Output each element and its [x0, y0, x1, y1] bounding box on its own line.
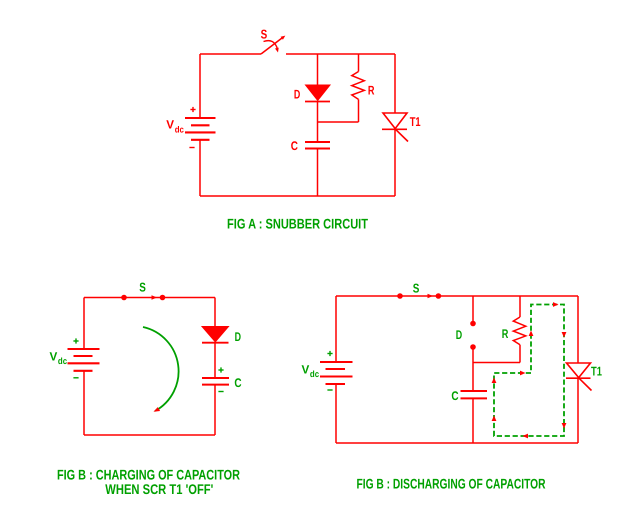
charging current arc arrowhead (red) [154, 407, 161, 412]
wire junction D-R (discharging) [473, 362, 520, 364]
svg-text:C: C [291, 139, 298, 153]
discharge loop arrowhead down at T1-side upper [562, 332, 567, 338]
svg-text:C: C [451, 389, 458, 403]
svg-text:R: R [502, 327, 509, 341]
thyristor T1 (discharging) triangle [567, 363, 591, 378]
svg-text:S: S [139, 280, 146, 294]
diode D (charging) filled triangle [202, 327, 229, 342]
svg-text:S: S [261, 27, 268, 41]
wire left side (Vdc top lead) [199, 54, 201, 118]
capacitor C (charging) plates [202, 378, 229, 385]
wire bottom rail (discharging) [336, 442, 578, 444]
diode D open terminals dot lower (discharging) [470, 344, 476, 350]
wire top-left rail [200, 53, 261, 55]
diode D cathode bar [305, 101, 330, 103]
svg-text:D: D [456, 328, 462, 342]
wire R branch bottom lead [358, 99, 360, 122]
discharge loop arrowhead down at T1-side lower [562, 423, 567, 429]
wire top rail (discharging) [336, 295, 578, 297]
wire left side (Vdc bottom lead) [199, 140, 201, 196]
thyristor T1 cathode bar [382, 128, 407, 130]
label - (discharging battery) [327, 389, 332, 391]
svg-text:D: D [235, 330, 241, 344]
switch S blade [261, 38, 282, 54]
wire bottom rail [200, 195, 395, 197]
svg-text:WHEN SCR T1 'OFF': WHEN SCR T1 'OFF' [105, 481, 213, 497]
wire right side top (to T1) [577, 296, 579, 363]
wire left side top (discharging battery) [335, 296, 337, 362]
svg-text:T1: T1 [591, 364, 602, 378]
capacitor C (discharging) plates [461, 391, 488, 398]
label + (charging battery) [73, 338, 78, 343]
discharge loop arrowhead up at left-upper [492, 378, 497, 384]
discharge loop arrowhead up at R-side vertical [529, 331, 534, 337]
wire right side top (to diode) [214, 298, 216, 327]
label + (charging capacitor) [218, 367, 223, 372]
resistor R (discharging) zigzag [513, 317, 526, 345]
wire left side top (charging battery) [83, 298, 85, 350]
switch S motion arc arrowhead [275, 48, 279, 53]
wire D branch upper (discharging) [472, 296, 474, 321]
wire T1 branch top [394, 54, 396, 113]
switch S node dot 1 (charging) [121, 295, 127, 301]
wire top-right rail [286, 53, 395, 55]
switch S current arrowhead (charging) [152, 295, 158, 299]
svg-text:D: D [294, 88, 300, 102]
label - (charging battery) [73, 377, 78, 379]
diode D (FIG A) filled triangle [306, 85, 331, 101]
wire T1 branch bottom [394, 129, 396, 196]
switch S motion arc [264, 41, 278, 49]
thyristor T1 gate (discharging) [579, 378, 592, 390]
wire junction to capacitor (discharging) [472, 363, 474, 392]
label - (FIG A battery) [189, 147, 194, 149]
wire diode to capacitor [214, 343, 216, 379]
svg-text:V: V [302, 363, 310, 377]
svg-text:V: V [50, 350, 58, 364]
diode D open terminals dot upper (discharging) [470, 321, 476, 327]
wire C to bottom rail [317, 149, 319, 197]
wire D to C [317, 102, 319, 143]
wire left side bottom (discharging battery) [335, 384, 337, 443]
svg-text:dc: dc [310, 369, 319, 379]
wire top rail (charging) [84, 297, 215, 299]
switch S node dot 2 (charging) [160, 295, 166, 301]
wire D branch lower (discharging) [472, 349, 474, 363]
wire capacitor to bottom rail (discharging) [472, 399, 474, 444]
svg-text:T1: T1 [410, 115, 421, 129]
svg-text:dc: dc [175, 124, 184, 134]
svg-text:FIG A : SNUBBER CIRCUIT: FIG A : SNUBBER CIRCUIT [227, 216, 368, 232]
switch S node dot 1 (discharging) [397, 293, 403, 299]
discharge loop arrowhead up at left-lower [492, 416, 497, 422]
switch S blade arrowhead [281, 36, 286, 40]
svg-text:V: V [166, 118, 174, 132]
resistor R (FIG A) zigzag [352, 72, 365, 100]
label - (charging capacitor) [218, 391, 223, 393]
charging current arc (green) [143, 327, 179, 411]
switch S node dot 2 (discharging) [436, 293, 442, 299]
discharge loop arrowhead right at mid horizontal [520, 371, 526, 376]
wire D branch top [317, 54, 319, 85]
discharge current dashed loop (green) [494, 305, 564, 437]
thyristor T1 gate [396, 129, 409, 141]
discharge loop arrowhead right at top horizontal [553, 302, 559, 307]
svg-text:S: S [413, 281, 420, 295]
wire R branch bottom lead (discharging) [519, 345, 521, 363]
label + (discharging battery) [327, 351, 332, 356]
thyristor T1 (FIG A) triangle [383, 113, 407, 129]
svg-text:dc: dc [58, 356, 67, 366]
discharge loop arrowhead left at bottom horizontal [523, 434, 529, 439]
wire R branch top lead (discharging) [519, 296, 521, 317]
wire left side bottom (charging battery) [83, 371, 85, 435]
battery Vdc (charging) [68, 349, 100, 371]
thyristor T1 cathode bar (discharging) [566, 377, 591, 379]
wire R branch top lead [358, 54, 360, 72]
wire right side bottom (T1 to rail) [577, 378, 579, 443]
diode D cathode bar (charging) [202, 342, 229, 344]
svg-text:C: C [234, 376, 241, 390]
wire capacitor to bottom rail [214, 385, 216, 436]
switch S current arrowhead (discharging) [428, 294, 434, 298]
wire bottom rail (charging) [84, 434, 215, 436]
wire junction D-R [318, 121, 359, 123]
svg-text:FIG B : DISCHARGING OF CAPACIT: FIG B : DISCHARGING OF CAPACITOR [357, 475, 546, 491]
svg-text:R: R [368, 84, 375, 98]
battery Vdc (FIG A) [185, 118, 216, 140]
label + (FIG A battery) [190, 107, 195, 112]
capacitor C (FIG A) plates [305, 142, 330, 149]
battery Vdc (discharging) [320, 362, 353, 384]
